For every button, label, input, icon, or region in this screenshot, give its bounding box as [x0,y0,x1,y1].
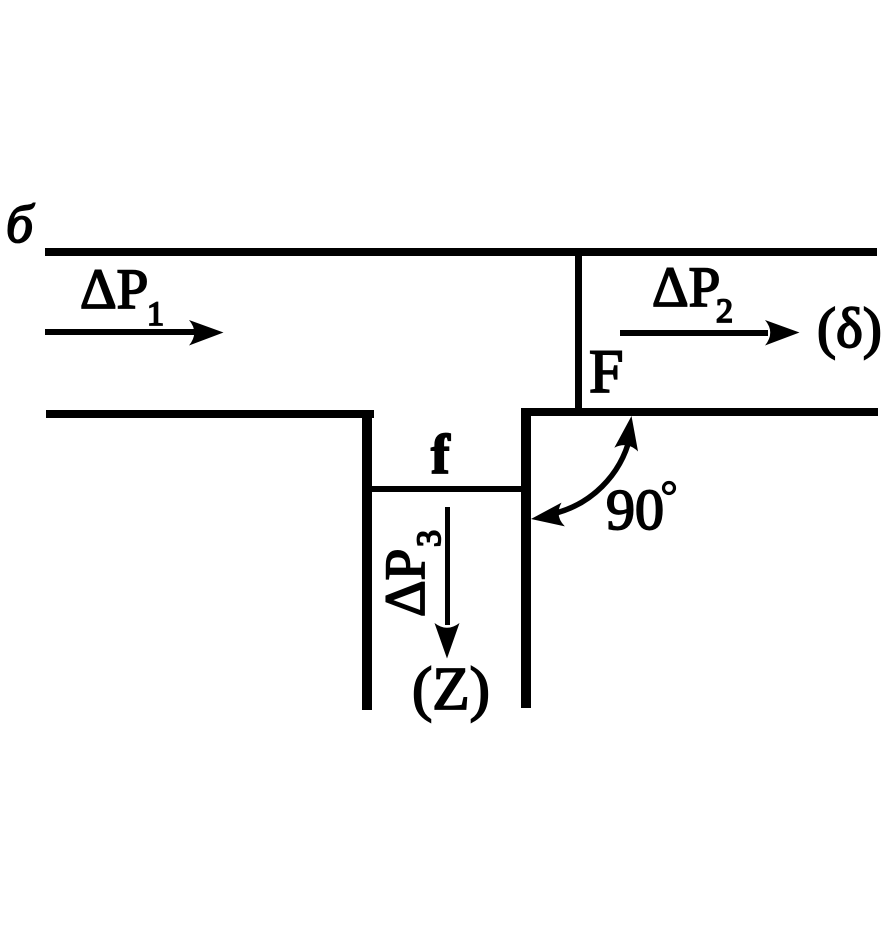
arrow ΔP2 shaft [620,330,768,336]
svg-text:ΔP: ΔP [80,258,148,321]
svg-text:ΔP: ΔP [652,256,720,319]
svg-text:2: 2 [716,293,733,330]
svg-text:f: f [431,424,451,486]
svg-text:F: F [589,338,623,406]
svg-text:б: б [6,194,35,254]
bottom pipe wall right segment [521,408,878,416]
angle arc head left [529,503,565,531]
arrow ΔP3 head [435,623,460,659]
arrow ΔP3 shaft [445,507,450,625]
svg-text:1: 1 [147,296,164,333]
bottom pipe wall left segment [46,410,374,418]
branch wall left [362,410,372,710]
svg-text:(Z): (Z) [412,656,490,723]
svg-text:ΔP: ΔP [374,549,437,617]
angle arc 90 degrees [552,437,630,514]
label ΔP3 with subscript (rotated 90 CCW) [374,530,448,617]
degree ring of 90° [664,483,675,494]
arrow ΔP2 head [765,320,800,346]
arrow ΔP1 shaft [45,329,195,335]
svg-text:90: 90 [606,477,664,542]
branch wall right [521,408,531,708]
arrow ΔP1 head [189,320,224,346]
throat line f (branch cross-section) [367,486,525,492]
top pipe wall [45,248,877,256]
svg-text:3: 3 [411,530,448,547]
angle arc head up [614,414,643,451]
svg-text:(δ): (δ) [817,297,882,360]
partition line F (branch cross-section) [575,252,582,412]
